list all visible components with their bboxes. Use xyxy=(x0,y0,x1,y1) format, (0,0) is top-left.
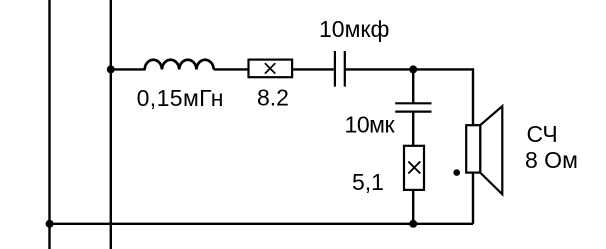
node junction dot bottom branch xyxy=(409,220,417,228)
wire bottom horizontal xyxy=(50,223,473,225)
svg-text:8 Ом: 8 Ом xyxy=(525,147,578,173)
inductor L1 xyxy=(145,60,214,70)
wire resistor to capacitor xyxy=(292,68,334,70)
svg-text:8.2: 8.2 xyxy=(257,85,289,111)
wire right corner down to speaker xyxy=(472,68,474,126)
resistor R2 box xyxy=(404,146,424,190)
wire vertical bus left xyxy=(48,0,50,249)
wire inductor to resistor xyxy=(214,68,249,70)
resistor R2 X mark xyxy=(408,162,420,174)
wire resistor R2 to bottom xyxy=(412,190,414,224)
capacitor C1 plates xyxy=(334,51,336,87)
wire capacitor C2 to resistor R2 xyxy=(412,112,414,147)
wire speaker to bottom xyxy=(472,172,474,224)
node junction dot bottom left xyxy=(46,220,54,228)
node junction dot top branch xyxy=(409,65,417,73)
svg-text:10мк: 10мк xyxy=(345,112,396,138)
resistor R1 box xyxy=(249,60,293,78)
speaker LS1 cone xyxy=(480,106,502,194)
wire branch node down to capacitor C2 xyxy=(412,69,414,104)
node junction dot top of second bus xyxy=(107,65,115,73)
svg-text:СЧ: СЧ xyxy=(527,121,558,147)
capacitor C2 plates xyxy=(395,102,431,104)
speaker polarity dot xyxy=(453,169,460,176)
svg-text:0,15мГн: 0,15мГн xyxy=(137,85,224,111)
svg-text:5,1: 5,1 xyxy=(352,169,384,195)
wire vertical bus second xyxy=(110,0,112,249)
wire top horizontal to inductor xyxy=(111,68,146,70)
resistor R1 X mark xyxy=(265,63,275,73)
wire capacitor to right corner xyxy=(346,68,473,70)
speaker LS1 body rectangle xyxy=(466,125,480,172)
svg-text:10мкф: 10мкф xyxy=(319,16,389,42)
